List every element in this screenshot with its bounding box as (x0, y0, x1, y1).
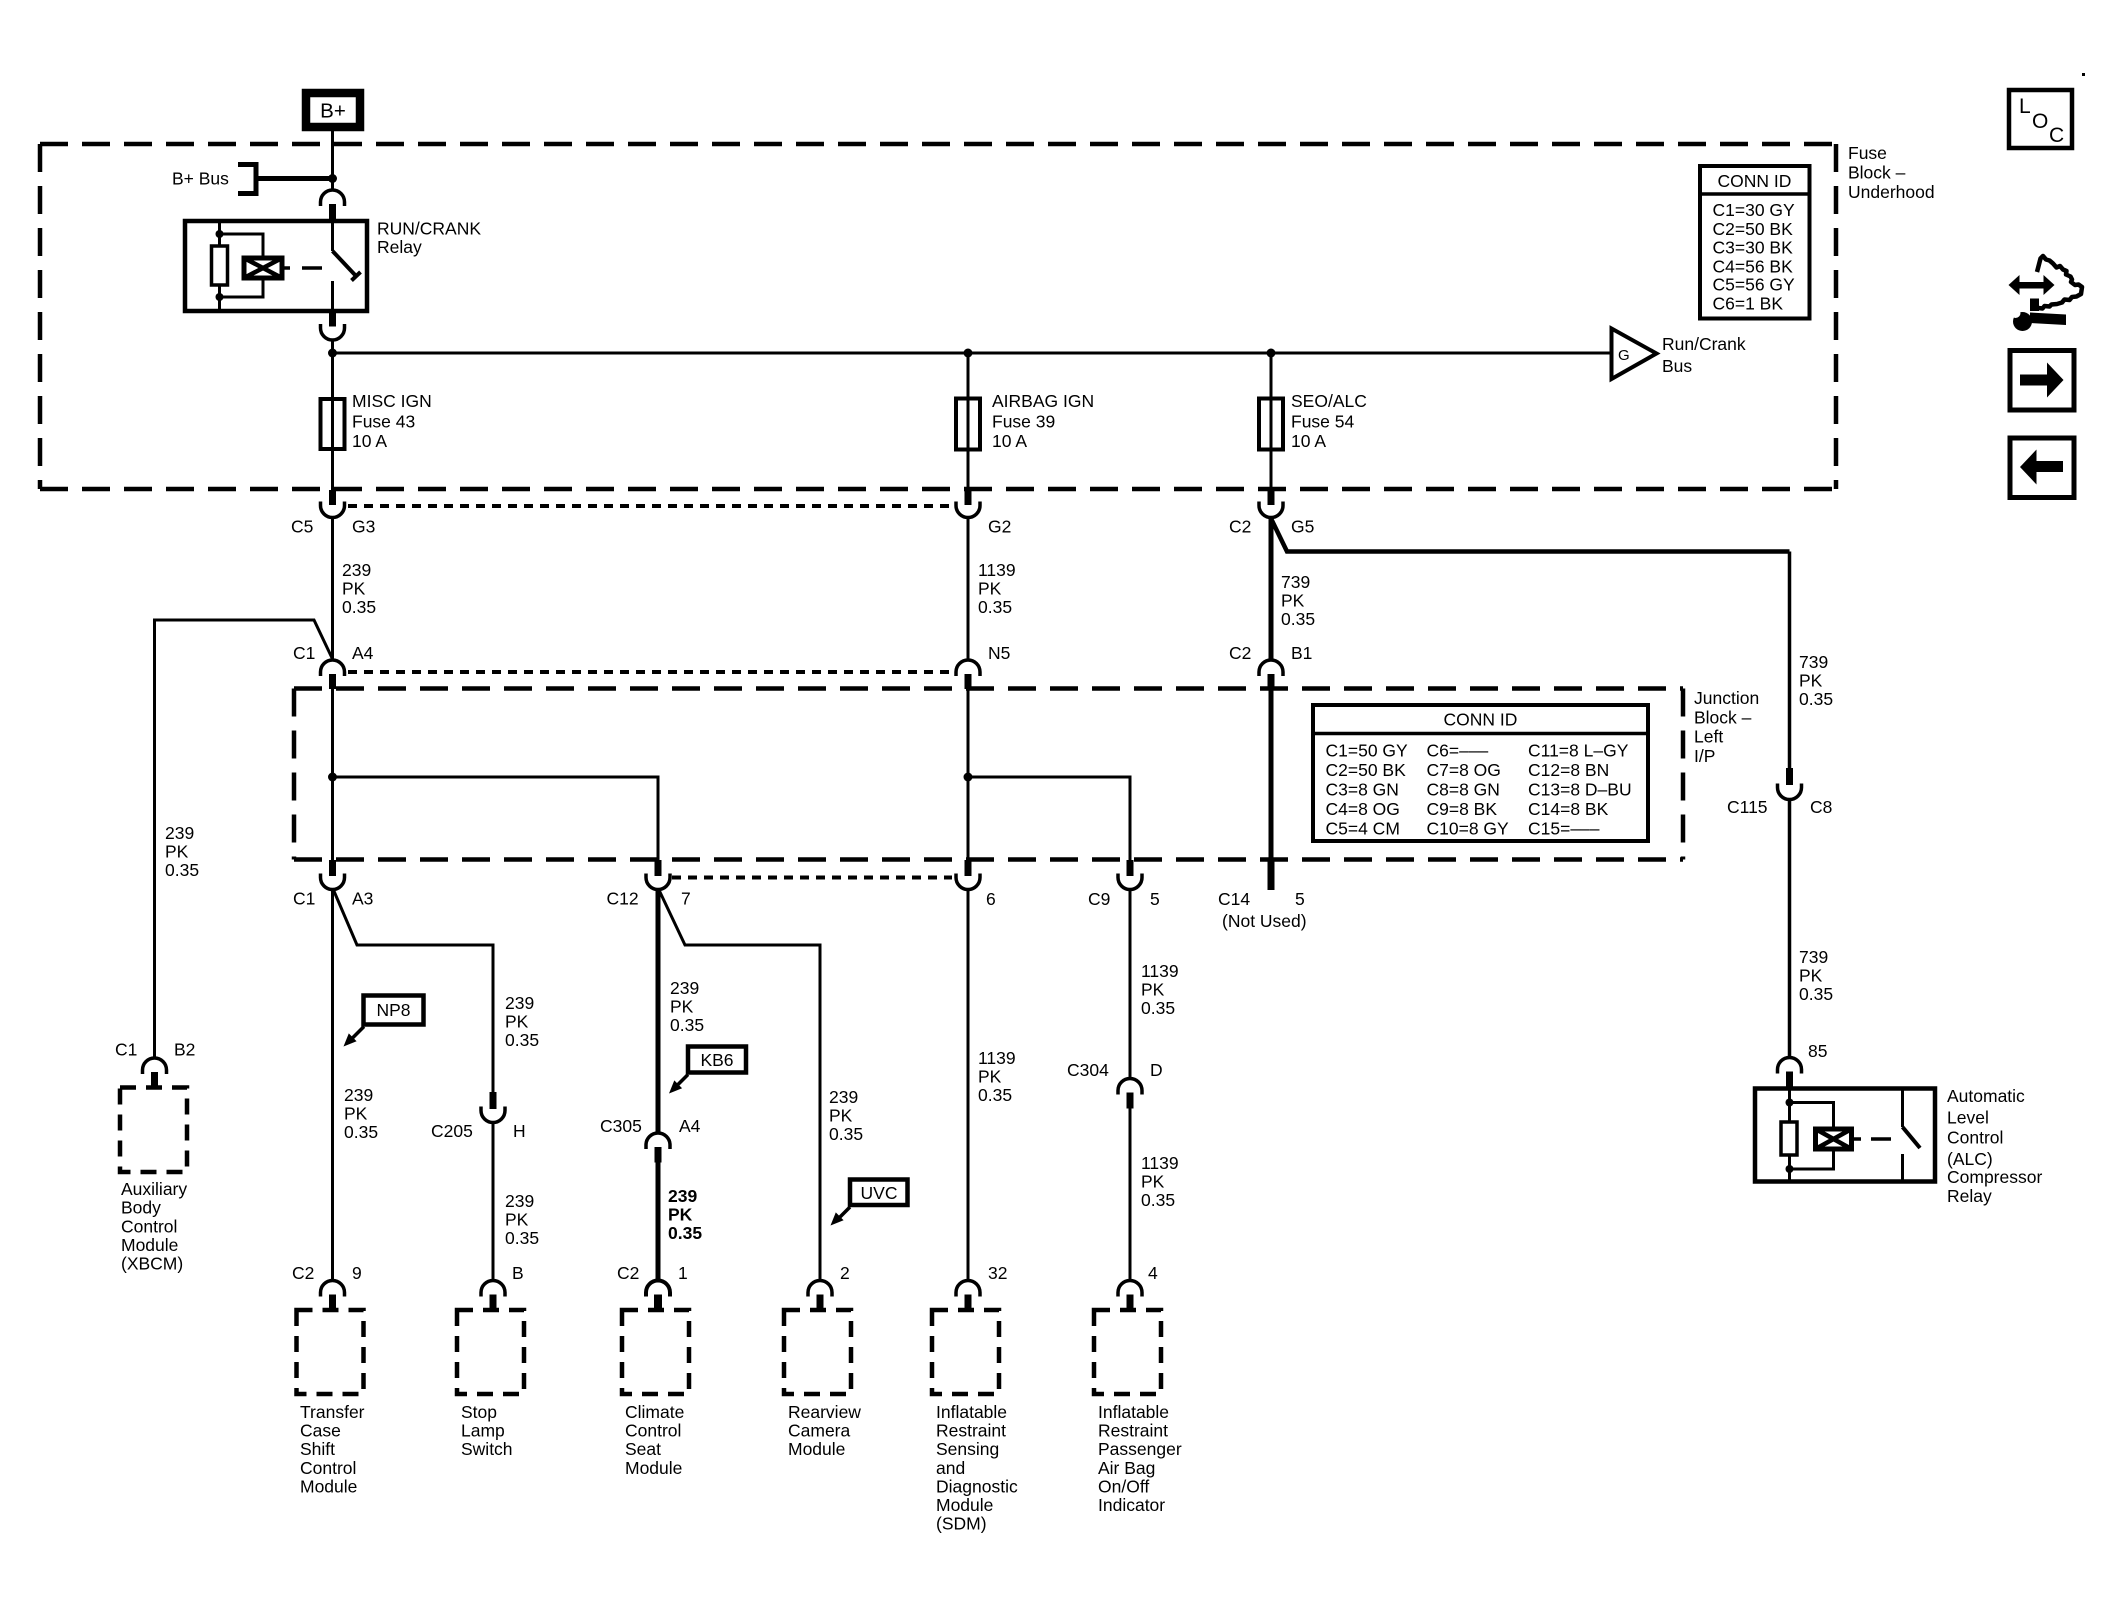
coil K1 (box with X) (244, 258, 282, 278)
CONN ID table (fuse block) (1700, 166, 1810, 319)
connector B (stop lamp switch) (481, 1263, 524, 1310)
svg-text:5: 5 (1295, 889, 1305, 909)
wire junction block branch to C9 (968, 777, 1130, 860)
svg-text:On/Off: On/Off (1098, 1476, 1149, 1496)
svg-text:0.35: 0.35 (668, 1223, 702, 1243)
wire diagonal to stop lamp branch (334, 890, 494, 1092)
svg-text:CONN ID: CONN ID (1444, 710, 1518, 730)
svg-text:O: O (2032, 110, 2048, 133)
svg-text:Stop: Stop (461, 1402, 497, 1422)
svg-text:C115: C115 (1727, 797, 1768, 817)
svg-text:PK: PK (1141, 980, 1165, 1000)
connector C305/A4 (600, 1116, 701, 1163)
Junction Block label (1694, 688, 1759, 766)
relay label (377, 219, 481, 258)
svg-text:0.35: 0.35 (829, 1124, 863, 1144)
connector into relay (arc/pin) (321, 190, 345, 221)
connector N5 (junction block entry) (956, 643, 1010, 689)
svg-text:(Not Used): (Not Used) (1222, 911, 1307, 931)
svg-text:C2=50 BK: C2=50 BK (1326, 760, 1407, 780)
svg-text:(ALC): (ALC) (1947, 1149, 1993, 1169)
node bus seo tap (1267, 349, 1276, 358)
svg-text:Underhood: Underhood (1848, 182, 1935, 202)
module XBCM dashed box (120, 1088, 187, 1173)
node ALC top junction (1786, 1099, 1794, 1107)
svg-text:C9=8 BK: C9=8 BK (1427, 799, 1498, 819)
connector 4 (indicator) (1118, 1263, 1158, 1310)
svg-text:Run/Crank: Run/Crank (1662, 334, 1746, 354)
connector C2/G5 (fuse block exit) (1229, 490, 1314, 537)
fuse F39 AIRBAG IGN (956, 391, 1094, 451)
svg-text:5: 5 (1150, 889, 1160, 909)
svg-text:739: 739 (1799, 947, 1828, 967)
svg-text:Control: Control (300, 1458, 356, 1478)
svg-text:239: 239 (342, 560, 371, 580)
module SDM dashed box (932, 1310, 999, 1394)
svg-text:AIRBAG IGN: AIRBAG IGN (992, 391, 1094, 411)
svg-text:Bus: Bus (1662, 356, 1692, 376)
svg-text:85: 85 (1808, 1041, 1827, 1061)
svg-text:1139: 1139 (1141, 1153, 1179, 1173)
svg-text:PK: PK (505, 1012, 529, 1032)
label wire 239 PK 0.35 (XBCM) (165, 823, 199, 880)
svg-text:4: 4 (1148, 1263, 1158, 1283)
module Rearview Camera label (788, 1402, 861, 1459)
B+ Bus stub and label (172, 165, 333, 194)
svg-text:239: 239 (829, 1087, 858, 1107)
svg-text:PK: PK (978, 579, 1002, 599)
label wire 239 PK 0.35 (climate lower) (668, 1186, 702, 1243)
svg-text:Module: Module (625, 1458, 682, 1478)
module Rearview Camera dashed box (784, 1310, 851, 1394)
label wire 1139 PK 0.35 (indicator lower) (1141, 1153, 1179, 1210)
svg-text:PK: PK (668, 1205, 693, 1225)
wire rearview branch (659, 890, 820, 1281)
connector below relay (321, 311, 345, 340)
module Transfer Case label (300, 1402, 365, 1496)
svg-text:UVC: UVC (861, 1183, 898, 1203)
wire seo/alc branch (1270, 353, 1273, 490)
svg-text:C2: C2 (292, 1263, 314, 1283)
svg-text:C1: C1 (293, 889, 315, 909)
svg-text:(XBCM): (XBCM) (121, 1254, 183, 1274)
label wire 239 PK 0.35 (climate upper) (670, 978, 704, 1035)
wire C8 to 85 (1788, 800, 1792, 1059)
svg-text:C6=–––: C6=––– (1427, 740, 1489, 760)
svg-text:0.35: 0.35 (1141, 998, 1175, 1018)
svg-text:Block –: Block – (1848, 163, 1906, 183)
svg-text:C14: C14 (1218, 889, 1250, 909)
svg-text:Automatic: Automatic (1947, 1086, 2025, 1106)
svg-text:C205: C205 (431, 1121, 473, 1141)
module SDM label (936, 1402, 1018, 1534)
svg-text:C12=8 BN: C12=8 BN (1528, 760, 1609, 780)
relay ALC compressor (1755, 1089, 1935, 1182)
svg-text:0.35: 0.35 (342, 597, 376, 617)
connector C1/B2 (115, 1040, 195, 1088)
svg-text:C10=8 GY: C10=8 GY (1427, 818, 1510, 838)
node relay top junction (216, 230, 224, 238)
svg-text:C5=4 CM: C5=4 CM (1326, 818, 1400, 838)
Fuse Block - Underhood dashed boundary (40, 144, 1836, 489)
connector C14/5 stub (not used) (1218, 858, 1307, 931)
svg-text:0.35: 0.35 (1799, 689, 1833, 709)
svg-text:C6=1 BK: C6=1 BK (1713, 294, 1784, 314)
svg-text:C7=8 OG: C7=8 OG (1427, 760, 1501, 780)
svg-text:0.35: 0.35 (505, 1228, 539, 1248)
connector C9/5 (junction block exit) (1088, 860, 1160, 909)
icon arrow right box (2010, 351, 2074, 411)
svg-text:PK: PK (1281, 591, 1305, 611)
svg-text:PK: PK (1141, 1172, 1165, 1192)
svg-text:Left: Left (1694, 727, 1723, 747)
svg-text:239: 239 (670, 978, 699, 998)
svg-text:Climate: Climate (625, 1402, 684, 1422)
icon vehicle double arrow (2009, 275, 2055, 295)
svg-text:1139: 1139 (978, 1048, 1016, 1068)
label wire 239 PK 0.35 (transfer) (344, 1085, 378, 1142)
node B+ Bus junction (328, 174, 337, 183)
label wire 1139 PK 0.35 (indicator upper) (1141, 961, 1179, 1018)
svg-text:0.35: 0.35 (1799, 984, 1833, 1004)
wire G5 branch to ALC (1271, 519, 1790, 552)
svg-text:239: 239 (505, 993, 534, 1013)
svg-text:Relay: Relay (377, 237, 422, 257)
svg-text:0.35: 0.35 (505, 1030, 539, 1050)
svg-text:Inflatable: Inflatable (936, 1402, 1007, 1422)
wire 1139 PK G2 to N5 (967, 518, 970, 660)
label wire 1139 PK 0.35 (SDM) (978, 1048, 1016, 1105)
wire coil loop (220, 234, 264, 258)
svg-text:(SDM): (SDM) (936, 1514, 987, 1534)
svg-text:PK: PK (829, 1106, 853, 1126)
svg-text:C8=8 GN: C8=8 GN (1427, 779, 1500, 799)
svg-text:1: 1 (678, 1263, 688, 1283)
resistor (relay internal) (212, 246, 228, 285)
label wire 239 PK 0.35 (rearview) (829, 1087, 863, 1144)
module XBCM label (121, 1179, 187, 1274)
svg-text:C3=30 BK: C3=30 BK (1713, 237, 1794, 257)
svg-text:C1=30 GY: C1=30 GY (1713, 200, 1796, 220)
svg-text:Auxiliary: Auxiliary (121, 1179, 187, 1199)
wire junction block left vertical (331, 689, 334, 860)
coil (ALC relay, box with X) (1816, 1129, 1852, 1149)
module Transfer Case dashed box (297, 1310, 364, 1394)
svg-text:Switch: Switch (461, 1439, 513, 1459)
wire dashed actuate link (ALC) (1852, 1137, 1892, 1141)
svg-text:G2: G2 (988, 517, 1011, 537)
svg-text:2: 2 (840, 1263, 850, 1283)
connector C2/9 (transfer case) (292, 1263, 362, 1310)
label wire 239 PK 0.35 (stop upper) (505, 993, 539, 1050)
label wire 1139 PK 0.35 (978, 560, 1016, 617)
svg-text:Fuse: Fuse (1848, 143, 1887, 163)
connector C1/A4 (junction block entry) (293, 643, 374, 689)
connector C2/B1 (junction block entry) (1229, 643, 1312, 689)
svg-text:239: 239 (344, 1085, 373, 1105)
svg-text:6: 6 (986, 889, 996, 909)
module Climate Control Seat dashed box (622, 1310, 689, 1394)
svg-text:PK: PK (978, 1067, 1002, 1087)
svg-text:D: D (1150, 1060, 1163, 1080)
svg-text:C2: C2 (1229, 517, 1251, 537)
icon LOC box (2009, 90, 2072, 148)
svg-text:C304: C304 (1067, 1060, 1109, 1080)
svg-text:739: 739 (1799, 652, 1828, 672)
svg-text:G5: G5 (1291, 517, 1314, 537)
svg-text:Fuse 43: Fuse 43 (352, 412, 415, 432)
svg-text:PK: PK (505, 1210, 529, 1230)
svg-text:Passenger: Passenger (1098, 1439, 1182, 1459)
svg-text:I/P: I/P (1694, 746, 1715, 766)
svg-text:PK: PK (342, 579, 366, 599)
svg-text:B+ Bus: B+ Bus (172, 169, 229, 189)
svg-text:Fuse 54: Fuse 54 (1291, 412, 1354, 432)
svg-text:32: 32 (988, 1263, 1007, 1283)
wire ALC coil loop (1790, 1103, 1834, 1130)
svg-text:C2: C2 (1229, 643, 1251, 663)
svg-text:10 A: 10 A (992, 431, 1027, 451)
svg-text:Restraint: Restraint (936, 1421, 1006, 1441)
svg-text:1139: 1139 (978, 560, 1016, 580)
svg-text:C4=8 OG: C4=8 OG (1326, 799, 1400, 819)
wire relay to bus (331, 340, 334, 353)
connector C304/D (1067, 1060, 1163, 1109)
switch (ALC relay contact) (1901, 1089, 1904, 1128)
svg-text:Control: Control (1947, 1128, 2003, 1148)
svg-text:C1: C1 (293, 643, 315, 663)
off-page connector G Run/Crank Bus (1612, 329, 1746, 380)
icon vehicle notch (2030, 299, 2039, 312)
svg-text:NP8: NP8 (376, 1000, 410, 1020)
svg-text:Level: Level (1947, 1108, 1989, 1128)
svg-text:B: B (512, 1263, 524, 1283)
wire connector row 1 dotted (348, 504, 952, 508)
svg-text:Lamp: Lamp (461, 1421, 505, 1441)
svg-text:CONN ID: CONN ID (1718, 171, 1792, 191)
svg-text:0.35: 0.35 (165, 860, 199, 880)
connector C5/G3 (fuse block exit) (291, 490, 375, 537)
module Stop Lamp Switch label (461, 1402, 513, 1459)
svg-text:0.35: 0.35 (670, 1015, 704, 1035)
svg-text:H: H (513, 1121, 526, 1141)
svg-text:A3: A3 (352, 889, 373, 909)
svg-text:10 A: 10 A (352, 431, 387, 451)
wire indicator branch lower (1129, 1109, 1132, 1282)
wire C305 to seat module (bold) (656, 1163, 661, 1282)
connector 32 (SDM) (956, 1263, 1007, 1310)
svg-text:Module: Module (300, 1476, 357, 1496)
svg-text:Fuse 39: Fuse 39 (992, 412, 1055, 432)
svg-text:Case: Case (300, 1421, 341, 1441)
svg-text:Module: Module (788, 1439, 845, 1459)
svg-text:PK: PK (1799, 966, 1823, 986)
svg-text:Compressor: Compressor (1947, 1167, 2042, 1187)
node bus airbag tap (964, 349, 973, 358)
svg-text:Shift: Shift (300, 1439, 335, 1459)
module Stop Lamp Switch dashed box (457, 1310, 524, 1394)
switch (relay contact) (331, 221, 334, 251)
svg-text:Relay: Relay (1947, 1186, 1992, 1206)
relay RUN/CRANK (185, 221, 367, 311)
wire misc ign branch (331, 353, 334, 490)
svg-text:Body: Body (121, 1198, 161, 1218)
node ALC bottom junction (1786, 1165, 1794, 1173)
tag UVC (831, 1180, 908, 1226)
svg-text:C: C (2049, 124, 2064, 147)
svg-text:PK: PK (1799, 671, 1823, 691)
icon vehicle outline (2037, 256, 2082, 309)
node relay bottom junction (216, 293, 224, 301)
wire C205 to stop lamp switch (492, 1123, 495, 1282)
Fuse Block - Underhood label (1848, 143, 1935, 202)
wire transfer case branch (331, 890, 334, 1282)
svg-text:Air Bag: Air Bag (1098, 1458, 1155, 1478)
svg-text:PK: PK (670, 997, 694, 1017)
module Indicator dashed box (1094, 1310, 1161, 1394)
svg-text:B2: B2 (174, 1040, 195, 1060)
tag NP8 (344, 996, 424, 1047)
svg-text:Module: Module (121, 1235, 178, 1255)
svg-text:C2=50 BK: C2=50 BK (1713, 219, 1794, 239)
svg-text:PK: PK (165, 842, 189, 862)
resistor (ALC relay internal) (1781, 1122, 1797, 1155)
wire junction block B1 to C14 (not used) (1269, 689, 1274, 858)
connector C115/C8 (1727, 768, 1832, 817)
svg-text:C9: C9 (1088, 889, 1110, 909)
svg-text:Control: Control (121, 1216, 177, 1236)
label wire 739 PK 0.35 (1281, 572, 1315, 629)
svg-text:RUN/CRANK: RUN/CRANK (377, 219, 481, 239)
power feed B+ terminal box (306, 93, 360, 127)
wire relay resistor leg (218, 221, 221, 246)
svg-text:C2: C2 (617, 1263, 639, 1283)
svg-text:Transfer: Transfer (300, 1402, 365, 1422)
svg-text:N5: N5 (988, 643, 1010, 663)
svg-text:239: 239 (668, 1186, 697, 1206)
icon wrench (2011, 308, 2067, 331)
connector C2/1 (seat module) (617, 1263, 688, 1310)
svg-text:0.35: 0.35 (978, 1085, 1012, 1105)
relay ALC label (1947, 1086, 2042, 1206)
svg-text:0.35: 0.35 (978, 597, 1012, 617)
svg-text:Rearview: Rearview (788, 1402, 861, 1422)
svg-text:Camera: Camera (788, 1421, 851, 1441)
svg-text:Junction: Junction (1694, 688, 1759, 708)
CONN ID table (junction block) (1313, 705, 1648, 841)
connector 6 (junction block exit) (956, 860, 996, 909)
svg-text:1139: 1139 (1141, 961, 1179, 981)
svg-text:Inflatable: Inflatable (1098, 1402, 1169, 1422)
svg-text:Diagnostic: Diagnostic (936, 1476, 1018, 1496)
wire 739 PK G5 to B1 (1269, 518, 1274, 659)
svg-text:Module: Module (936, 1495, 993, 1515)
wire junction block mid vertical (967, 689, 970, 860)
fuse F43 MISC IGN (321, 391, 432, 451)
connector C205/H (431, 1092, 526, 1141)
svg-text:C3=8 GN: C3=8 GN (1326, 779, 1399, 799)
connector C12/7 (junction block exit) (607, 860, 691, 909)
module Climate Control Seat label (625, 1402, 684, 1478)
node bus left (328, 349, 337, 358)
svg-text:KB6: KB6 (700, 1050, 733, 1070)
Junction Block - Left I/P dashed boundary (294, 689, 1683, 860)
svg-text:C13=8 D–BU: C13=8 D–BU (1528, 779, 1632, 799)
svg-text:B+: B+ (320, 100, 346, 123)
node junction block left tap (328, 773, 337, 782)
wire connector row 2 dotted (348, 670, 952, 674)
svg-text:739: 739 (1281, 572, 1310, 592)
svg-text:0.35: 0.35 (1141, 1190, 1175, 1210)
fuse F54 SEO/ALC (1259, 391, 1367, 451)
wire climate branch (bold circuit) (656, 890, 661, 1134)
svg-text:C11=8 L–GY: C11=8 L–GY (1528, 740, 1629, 760)
svg-text:C1: C1 (115, 1040, 137, 1060)
icon scan artifact dot (2082, 73, 2085, 76)
svg-text:Seat: Seat (625, 1439, 661, 1459)
svg-text:9: 9 (352, 1263, 362, 1283)
svg-text:C14=8 BK: C14=8 BK (1528, 799, 1609, 819)
svg-text:0.35: 0.35 (344, 1122, 378, 1142)
svg-text:10 A: 10 A (1291, 431, 1326, 451)
svg-text:C305: C305 (600, 1116, 642, 1136)
svg-text:239: 239 (165, 823, 194, 843)
svg-text:7: 7 (681, 889, 691, 909)
wire airbag ign branch (967, 353, 970, 490)
svg-text:0.35: 0.35 (1281, 609, 1315, 629)
connector 85 (ALC relay coil pin) (1778, 1041, 1828, 1089)
svg-text:A4: A4 (352, 643, 374, 663)
svg-text:G: G (1618, 347, 1630, 364)
connector C1/A3 (junction block exit) (293, 860, 373, 909)
svg-text:MISC IGN: MISC IGN (352, 391, 432, 411)
label wire 239 PK 0.35 (342, 560, 376, 617)
svg-text:C12: C12 (607, 889, 639, 909)
svg-text:C5: C5 (291, 517, 313, 537)
wire B+ to relay (331, 131, 334, 191)
wire 239 PK C5 to A4 (331, 518, 334, 660)
svg-text:and: and (936, 1458, 965, 1478)
wire Run/Crank bus (333, 352, 1612, 355)
svg-text:Block –: Block – (1694, 707, 1752, 727)
wire junction block branch to C12 (333, 777, 659, 860)
svg-text:A4: A4 (679, 1116, 701, 1136)
svg-text:Sensing: Sensing (936, 1439, 999, 1459)
svg-text:B1: B1 (1291, 643, 1312, 663)
node junction block mid tap (964, 773, 973, 782)
svg-text:G3: G3 (352, 517, 375, 537)
svg-text:C1=50 GY: C1=50 GY (1326, 740, 1409, 760)
wire dashed actuate link (282, 266, 322, 270)
label wire 239 PK 0.35 (stop lower) (505, 1191, 539, 1248)
wire XBCM branch from A4 (155, 620, 333, 1058)
svg-text:SEO/ALC: SEO/ALC (1291, 391, 1367, 411)
wire indicator branch upper (1129, 890, 1132, 1079)
wire SDM branch (967, 890, 970, 1282)
svg-text:239: 239 (505, 1191, 534, 1211)
svg-text:Restraint: Restraint (1098, 1421, 1168, 1441)
module Indicator label (1098, 1402, 1182, 1515)
connector 2 (rearview camera) (808, 1263, 850, 1310)
label wire 739 PK 0.35 (right upper) (1799, 652, 1833, 709)
connector G2 (fuse block exit) (956, 490, 1011, 537)
svg-text:C8: C8 (1810, 797, 1832, 817)
svg-text:PK: PK (344, 1104, 368, 1124)
svg-text:L: L (2019, 95, 2031, 118)
tag KB6 (669, 1047, 746, 1094)
icon arrow left box (2010, 438, 2074, 498)
svg-text:Indicator: Indicator (1098, 1495, 1165, 1515)
